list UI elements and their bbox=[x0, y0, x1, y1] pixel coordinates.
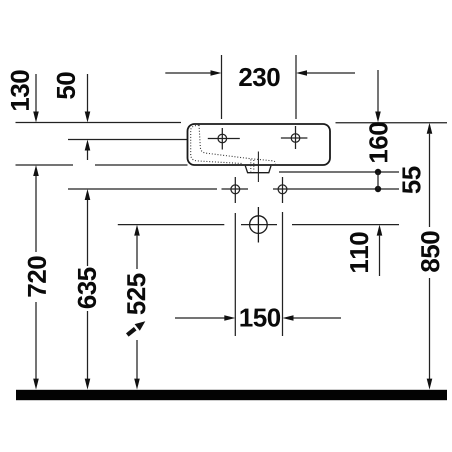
dim line right tail bbox=[306, 72, 355, 74]
adjustable indicator arrow bbox=[127, 329, 135, 335]
floor bar bbox=[16, 390, 447, 400]
dim line left tail bbox=[165, 72, 211, 74]
dimension 50 upper bbox=[87, 74, 89, 112]
label 55 bbox=[402, 167, 420, 194]
extension line left bbox=[234, 213, 236, 336]
dim tails bbox=[175, 317, 341, 319]
dot connector bbox=[377, 172, 379, 189]
supply line through big circle bbox=[118, 224, 399, 226]
dimension 150 bbox=[175, 212, 341, 336]
extension line left tap hole bbox=[221, 55, 223, 119]
dimension 850 bbox=[427, 123, 433, 134]
dimension 130 upper bbox=[35, 74, 37, 112]
drain center line bbox=[257, 152, 259, 183]
line 50 below rim bbox=[68, 139, 188, 141]
dot upper bbox=[375, 169, 381, 175]
dimension 50 lower arrow bbox=[85, 140, 91, 151]
hidden interior outer edge (dotted) bbox=[191, 125, 242, 163]
dimension 720 bbox=[33, 165, 39, 176]
rim level line right bbox=[336, 122, 448, 124]
dimension 525 bbox=[134, 225, 140, 236]
fixing hole right bbox=[278, 177, 287, 203]
rim level line left bbox=[16, 122, 182, 124]
extension line right bbox=[282, 212, 284, 336]
dimension 230 bbox=[165, 55, 355, 119]
hidden interior top connector (dotted) bbox=[198, 125, 201, 128]
tap hole right bbox=[281, 126, 308, 149]
arrowhead 230 left bbox=[211, 70, 222, 76]
hidden interior inner edge (dotted) bbox=[199, 128, 275, 164]
dimension 110 bbox=[377, 225, 383, 236]
label 230 bbox=[239, 68, 279, 86]
drain circle bbox=[250, 207, 268, 243]
line 130 below rim right bbox=[95, 164, 188, 166]
hidden drain edges (dotted) bbox=[251, 160, 254, 172]
tap hole left bbox=[208, 128, 240, 150]
dimension 635 bbox=[85, 189, 91, 200]
fixing holes line bbox=[68, 188, 399, 190]
line 130 below rim left bbox=[16, 164, 74, 166]
washbasin outline bbox=[188, 124, 331, 165]
extension line right tap hole bbox=[295, 55, 297, 119]
fixing hole left bbox=[231, 177, 240, 203]
dimension 160 bbox=[377, 70, 379, 112]
drain outlet tab bbox=[245, 166, 271, 173]
arrowhead 230 right bbox=[296, 70, 307, 76]
dot lower bbox=[375, 186, 381, 192]
drain bottom line bbox=[279, 171, 399, 173]
